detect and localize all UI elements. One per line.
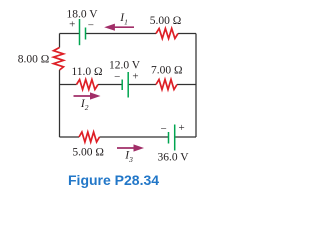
svg-text:−: − xyxy=(114,71,120,83)
svg-text:11.0 Ω: 11.0 Ω xyxy=(71,66,102,78)
svg-text:I3: I3 xyxy=(124,150,133,164)
svg-text:−: − xyxy=(88,20,94,32)
svg-text:I1: I1 xyxy=(119,12,128,26)
svg-text:5.00 Ω: 5.00 Ω xyxy=(72,147,104,159)
svg-text:I2: I2 xyxy=(80,98,89,112)
svg-text:+: + xyxy=(132,71,138,83)
svg-text:+: + xyxy=(69,19,75,31)
svg-text:36.0 V: 36.0 V xyxy=(157,152,189,164)
svg-text:7.00 Ω: 7.00 Ω xyxy=(151,65,183,77)
svg-text:−: − xyxy=(160,123,166,135)
svg-text:8.00 Ω: 8.00 Ω xyxy=(18,54,50,66)
svg-text:5.00 Ω: 5.00 Ω xyxy=(150,15,182,27)
svg-text:Figure P28.34: Figure P28.34 xyxy=(68,172,159,188)
svg-text:+: + xyxy=(178,122,184,134)
